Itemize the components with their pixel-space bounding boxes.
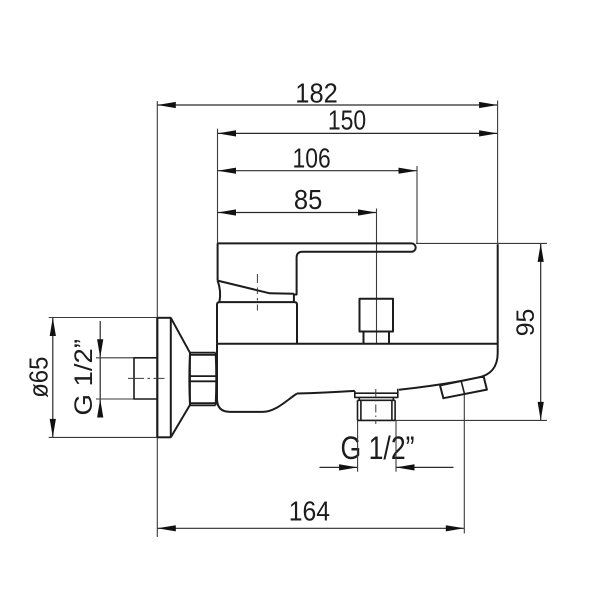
shower hose stub xyxy=(440,376,487,398)
body bottom left of flange xyxy=(297,391,355,394)
dim G1/2 left line xyxy=(97,321,103,418)
dim dia65 line xyxy=(50,318,56,438)
svg-text:106: 106 xyxy=(293,143,331,174)
extension line diverter axis xyxy=(376,209,378,344)
outlet flange xyxy=(355,389,398,398)
svg-text:150: 150 xyxy=(328,105,366,136)
svg-text:G 1/2”: G 1/2” xyxy=(341,430,415,466)
extension line G1/2 left top xyxy=(96,357,134,359)
svg-text:164: 164 xyxy=(289,496,330,527)
extension line outlet right xyxy=(395,420,397,471)
dim 182 line xyxy=(157,102,497,108)
cartridge cover left edge xyxy=(218,281,221,303)
hex nut xyxy=(190,353,216,406)
dim 150 line xyxy=(218,130,498,136)
extension line 95 top xyxy=(416,242,547,244)
svg-text:G 1/2”: G 1/2” xyxy=(70,339,98,416)
extension line 95 bottom xyxy=(358,419,547,421)
body left lower section xyxy=(217,344,297,412)
supply pipe axis centerline xyxy=(128,377,165,379)
extension line shower outlet axis xyxy=(463,394,465,533)
extension line dia65 bottom xyxy=(49,436,172,438)
extension line G1/2 left bottom xyxy=(96,398,134,400)
body top line xyxy=(217,343,498,345)
svg-text:95: 95 xyxy=(512,309,540,337)
cartridge axis centerline xyxy=(256,274,258,314)
extension line dia65 top xyxy=(49,317,172,319)
svg-text:ø65: ø65 xyxy=(26,357,54,398)
escutcheon cone bottom xyxy=(171,405,190,437)
extension line right (body end) xyxy=(497,101,499,245)
escutcheon right face xyxy=(188,353,191,405)
diverter knob xyxy=(360,299,394,332)
outlet threaded shank xyxy=(358,400,396,420)
escutcheon cylinder edge xyxy=(170,318,172,438)
body right edge and bottom xyxy=(399,244,498,390)
dim 85 line xyxy=(218,209,377,215)
dim 164 line xyxy=(157,525,464,531)
outlet neck xyxy=(358,397,396,400)
escutcheon face xyxy=(156,318,158,438)
svg-text:85: 85 xyxy=(294,184,322,215)
extension line outlet left xyxy=(357,420,359,471)
escutcheon top edge xyxy=(157,317,171,319)
diverter knob neck xyxy=(364,332,390,344)
dim G1/2 bottom line xyxy=(320,464,454,470)
escutcheon cone top xyxy=(171,318,190,353)
stub groove xyxy=(461,381,465,395)
dim 95 line xyxy=(538,243,544,420)
supply pipe xyxy=(134,358,157,399)
dim 106 line xyxy=(218,168,418,174)
lever handle xyxy=(218,243,416,302)
escutcheon bottom edge xyxy=(157,436,171,438)
extension line lever front xyxy=(217,129,219,244)
outlet axis centerline xyxy=(375,389,377,424)
extension line lever tip xyxy=(416,166,418,244)
cartridge collar xyxy=(217,302,297,344)
cartridge cover top xyxy=(218,281,294,294)
wall plane extension line xyxy=(156,101,158,537)
